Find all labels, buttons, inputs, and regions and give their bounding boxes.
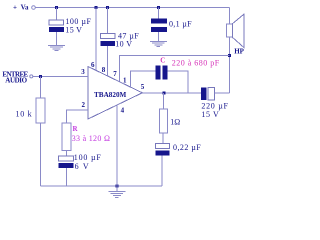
svg-text:4: 4 [121,106,125,114]
svg-text:7: 7 [113,70,117,78]
node Va terminal [13,3,35,11]
wire C3 bottom to ground [157,32,159,41]
node input terminal [2,70,32,84]
svg-text:15 V: 15 V [201,110,219,119]
node junction dot input/10k [39,75,42,78]
wire R1 bottom to rail [39,123,41,186]
svg-text:5: 5 [141,83,145,91]
wire C4 bottom to rail [65,168,67,186]
wire rail to C1 top [56,8,58,21]
node junction dot output/1ohm [162,92,165,95]
resistor R2 33-120ohm [62,123,110,151]
ground under C3 [150,42,167,47]
resistor R3 1ohm [159,109,180,133]
node junction dot rail/100uF [55,6,58,9]
wire rail to C2 top [107,8,109,34]
svg-text:2: 2 [82,101,86,109]
wire input node down to R1 [39,76,41,98]
svg-text:TBA820M: TBA820M [94,91,127,99]
speaker HP [226,14,244,55]
wire R3 bottom to C6 [162,133,164,144]
wire output node down to R3 [163,93,165,109]
capacitor C5 220-680pF [156,57,220,80]
capacitor C3 0.1uF [151,19,192,33]
resistor R1 10k [16,98,46,123]
svg-text:0,1 µF: 0,1 µF [169,20,192,29]
svg-text:6 V: 6 V [75,162,90,171]
wire pin 4 down to ground [116,105,118,191]
wire R2 bottom to C4 [65,151,67,157]
wire C6 bottom to rail [161,156,163,187]
wire C5 right down to output [168,71,189,93]
wire bottom ground rail [40,185,162,187]
op-amp U1 TBA820M [88,67,142,120]
svg-text:220 à 680 pF: 220 à 680 pF [172,59,220,68]
wire C7 right to speaker line [215,92,230,94]
capacitor C2 47uF 10V [101,31,140,48]
svg-text:33 à 120 Ω: 33 à 120 Ω [72,134,111,143]
node junction dot rail/47uF [106,6,109,9]
node junction dot rail/0.1uF [157,6,160,9]
svg-text:AUDIO: AUDIO [5,76,27,84]
node junction dot speaker/pin7 [228,54,231,57]
svg-text:1Ω: 1Ω [170,118,180,127]
wire input to pin 3 [33,75,88,77]
wire rail to C3 top [157,8,159,19]
wire top supply rail [36,7,230,9]
capacitor C6 0.22uF [156,143,202,156]
svg-text:100 µF: 100 µF [74,153,102,162]
capacitor C4 100uF 6V [59,153,102,171]
wire pin 7 bootstrap [119,55,229,81]
ground under C1 [48,46,65,51]
wire pin 1 up to C5 [131,71,156,88]
svg-text:+: + [13,3,17,11]
wire pin 2 to R2 [66,110,88,123]
svg-text:3: 3 [81,68,85,76]
node junction dot rail/pin6 [95,6,98,9]
svg-text:8: 8 [102,66,106,74]
wire C2 bottom to pin 8 [107,46,109,76]
svg-text:HP: HP [234,48,244,56]
svg-text:Va: Va [21,3,29,11]
svg-text:0,22 µF: 0,22 µF [173,143,201,152]
capacitor C1 100uF 15V [49,17,91,34]
wire rail to op-amp pin 6 [95,8,97,71]
capacitor C7 220uF 15V [201,88,229,119]
svg-text:C: C [160,57,165,65]
svg-text:10 k: 10 k [16,110,33,119]
wire speaker bottom down to 220uF [229,37,231,93]
svg-text:1: 1 [123,76,127,84]
wire C1 bottom to ground [56,32,58,45]
ground bottom [108,191,125,197]
svg-text:10 V: 10 V [115,39,132,48]
wire rail corner down to speaker [229,8,231,24]
svg-text:6: 6 [91,61,95,69]
wire op-amp output [142,92,201,94]
node junction dot rail/pin4 [115,185,118,188]
svg-text:15 V: 15 V [65,25,82,34]
